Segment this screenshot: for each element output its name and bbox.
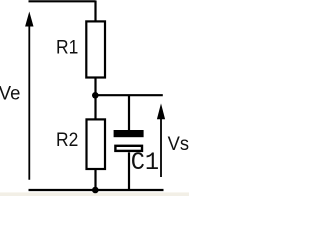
node B junction dot [92, 187, 99, 194]
wire capacitor branch lower [128, 152, 130, 190]
voltage arrow Vs shaft [160, 117, 162, 177]
capacitor C1 bottom plate [115, 146, 142, 151]
wire bottom rail [29, 189, 164, 191]
svg-text:R1: R1 [56, 38, 78, 59]
voltage arrow Ve shaft [28, 24, 30, 180]
svg-text:C1: C1 [131, 149, 159, 177]
wire mid rail to capacitor and Vs [96, 94, 163, 96]
capacitor C1 top plate [114, 130, 144, 137]
wire top rail [29, 0, 96, 2]
wire R1 to node A [94, 78, 96, 96]
wire top branch down to R1 [94, 1, 96, 22]
wire R2 to bottom rail [94, 169, 96, 190]
node A junction dot [92, 92, 99, 99]
resistor R1 [86, 21, 105, 77]
svg-text:Vs: Vs [168, 134, 189, 155]
wire node A down to R2 [94, 95, 96, 119]
wire capacitor branch upper [128, 95, 130, 130]
voltage arrow Ve head [25, 12, 33, 27]
voltage arrow Vs head [157, 103, 165, 119]
svg-text:R2: R2 [56, 130, 78, 151]
svg-text:Ve: Ve [0, 82, 20, 104]
bottom page strip [0, 192, 189, 196]
resistor R2 [87, 119, 106, 169]
